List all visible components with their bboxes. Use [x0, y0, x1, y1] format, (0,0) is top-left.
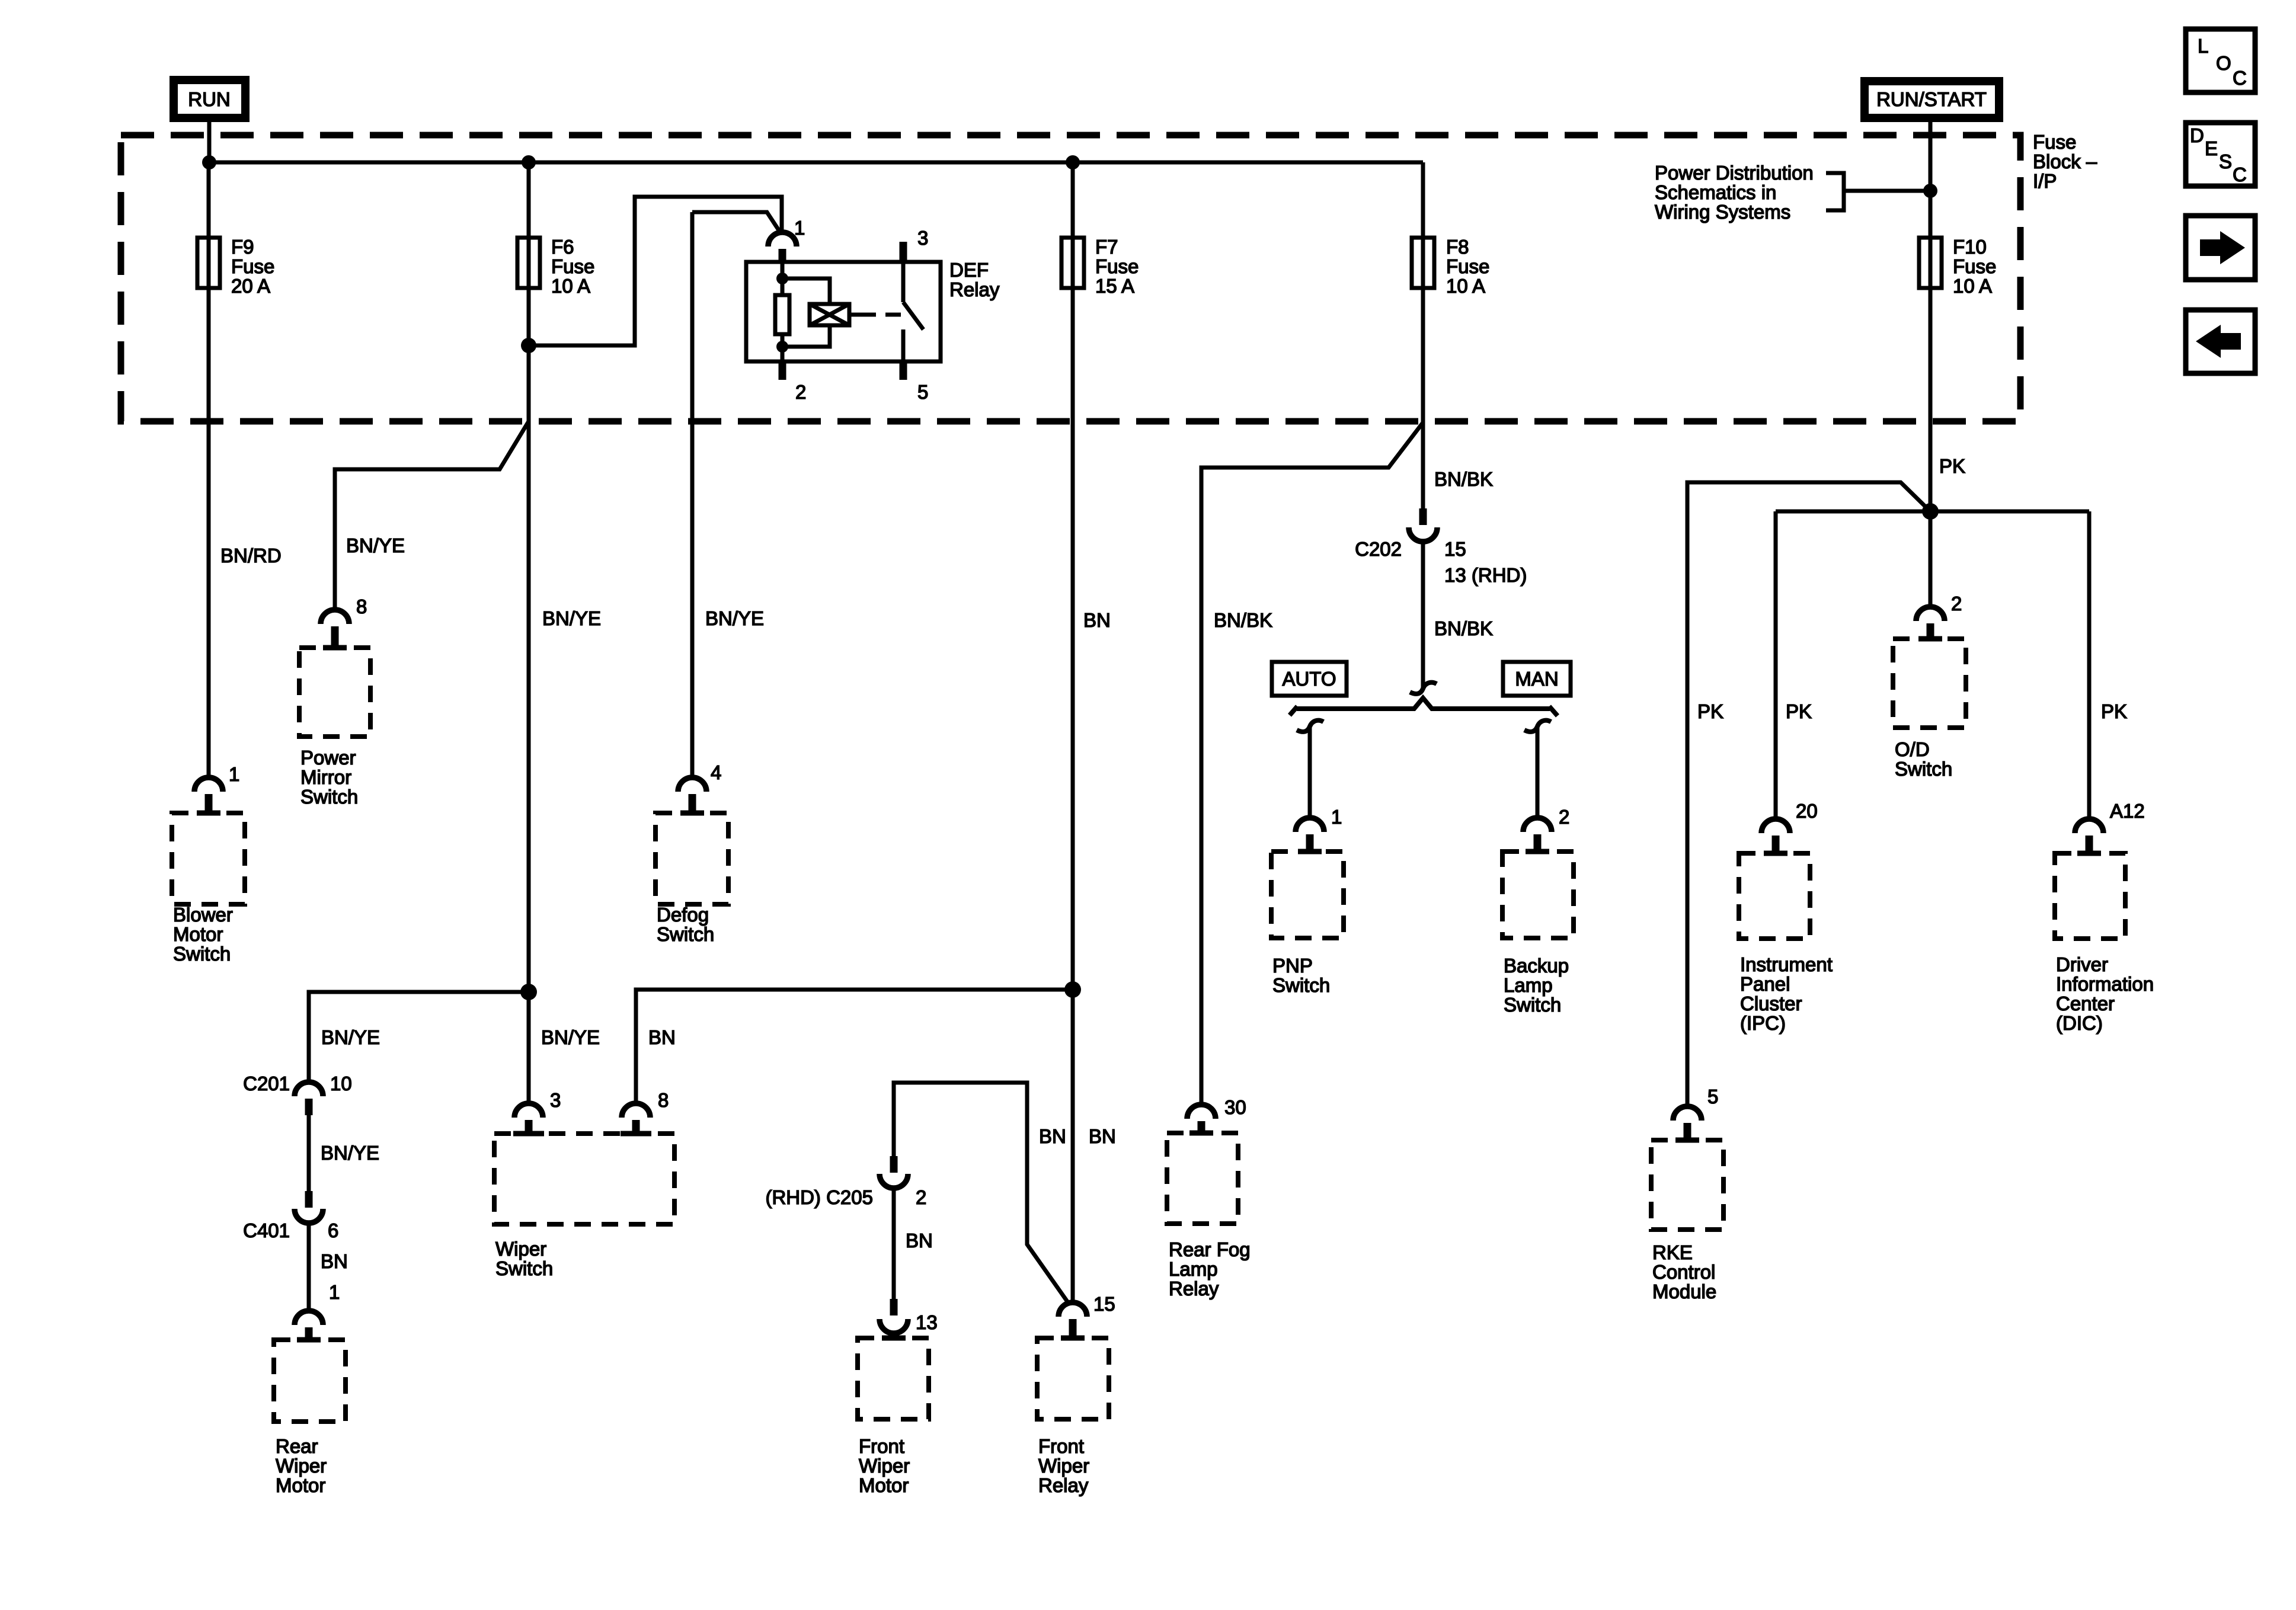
svg-text:Cluster: Cluster: [1740, 993, 1802, 1014]
svg-text:Motor: Motor: [173, 923, 223, 945]
svg-text:F8: F8: [1446, 236, 1469, 258]
svg-text:C: C: [2233, 164, 2247, 185]
svg-text:(DIC): (DIC): [2056, 1012, 2103, 1034]
svg-text:3: 3: [917, 227, 928, 249]
front wiper relay: [1037, 1338, 1109, 1496]
pin 8 connector of power mirror switch: [321, 596, 367, 645]
connector C201 pin 10: [243, 1073, 352, 1115]
svg-text:RUN/START: RUN/START: [1876, 88, 1987, 110]
pin 20 connector of instrument panel cluster: [1761, 800, 1818, 853]
connector C205 pin 2: [765, 1156, 926, 1208]
svg-text:Control: Control: [1652, 1261, 1715, 1283]
node RUN/START (ignition feed box): [1865, 81, 1999, 118]
wire C401 to rear wiper motor: [307, 1222, 311, 1311]
svg-text:Relay: Relay: [949, 279, 1000, 300]
svg-text:Power: Power: [300, 747, 356, 769]
svg-text:Fuse: Fuse: [551, 255, 594, 277]
svg-text:20: 20: [1796, 800, 1818, 822]
fuse block I/P dashed border: [121, 135, 2020, 421]
svg-text:F9: F9: [231, 236, 254, 258]
svg-text:Front: Front: [1038, 1435, 1084, 1457]
PNP switch: [1271, 852, 1344, 996]
svg-text:8: 8: [356, 596, 367, 617]
svg-text:O/D: O/D: [1895, 738, 1930, 760]
svg-text:PK: PK: [1697, 700, 1723, 722]
connector C202 pin 15: [1355, 508, 1527, 586]
svg-text:10 A: 10 A: [1953, 275, 1992, 297]
svg-text:30: 30: [1224, 1096, 1246, 1118]
svg-text:Relay: Relay: [1169, 1278, 1219, 1299]
front wiper motor: [858, 1338, 929, 1496]
wire RKE branch: [1687, 482, 1930, 1106]
svg-text:S: S: [2219, 151, 2232, 172]
svg-text:Mirror: Mirror: [300, 766, 351, 788]
svg-text:C202: C202: [1355, 538, 1402, 560]
icon LOC button: [2186, 29, 2255, 92]
power mirror switch: [299, 648, 370, 808]
svg-text:I/P: I/P: [2033, 170, 2057, 192]
svg-text:13: 13: [916, 1311, 938, 1333]
svg-text:Fuse: Fuse: [231, 255, 274, 277]
junction dot schematics callout: [1923, 184, 1937, 198]
wire wiper switch pin 8 branch: [636, 990, 1073, 1103]
instrument panel cluster: [1739, 853, 1833, 1034]
pin A12 connector of driver information center: [2075, 800, 2145, 853]
rear fog lamp relay: [1167, 1133, 1251, 1299]
wire F6 to DEF relay pin 1: [529, 197, 782, 345]
svg-text:F10: F10: [1953, 236, 1987, 258]
svg-text:BN: BN: [906, 1230, 933, 1251]
wire DIC branch: [2087, 511, 2092, 819]
wire RUN/START drop: [1929, 118, 1933, 607]
svg-text:Wiper: Wiper: [276, 1455, 327, 1477]
svg-text:PK: PK: [1939, 455, 1965, 477]
callout Power Distribution Schematics in Wiring Systems: [1655, 162, 1930, 223]
svg-text:15: 15: [1444, 538, 1466, 560]
svg-text:8: 8: [658, 1089, 669, 1111]
svg-text:5: 5: [1707, 1086, 1718, 1108]
O/D switch: [1893, 639, 1966, 780]
svg-text:2: 2: [916, 1186, 926, 1208]
svg-text:BN/YE: BN/YE: [321, 1026, 380, 1048]
svg-text:(RHD) C205: (RHD) C205: [765, 1186, 873, 1208]
svg-text:Wiper: Wiper: [1038, 1455, 1089, 1477]
svg-text:Switch: Switch: [1272, 974, 1330, 996]
svg-text:Relay: Relay: [1038, 1474, 1089, 1496]
wire F9 branch: [207, 162, 211, 777]
svg-text:A12: A12: [2110, 800, 2145, 822]
svg-text:15: 15: [1093, 1293, 1115, 1315]
svg-text:BN/YE: BN/YE: [542, 607, 601, 629]
wire IPC branch: [1774, 511, 1778, 819]
svg-text:PK: PK: [1786, 700, 1812, 722]
junction dot F7/BN: [1064, 981, 1081, 998]
svg-text:2: 2: [1559, 806, 1569, 828]
junction dot at F7: [1066, 155, 1080, 169]
svg-text:Fuse: Fuse: [1953, 255, 1996, 277]
svg-text:Motor: Motor: [859, 1474, 909, 1496]
wire rear fog lamp relay branch: [1201, 422, 1423, 1105]
splice hook MAN branch: [1524, 721, 1551, 732]
junction dot BN/YE split: [520, 984, 537, 1000]
svg-text:20 A: 20 A: [231, 275, 270, 297]
wire power mirror switch branch: [335, 421, 529, 610]
svg-text:Rear Fog: Rear Fog: [1169, 1238, 1251, 1260]
svg-text:Switch: Switch: [173, 943, 231, 965]
svg-text:PK: PK: [2101, 700, 2127, 722]
svg-text:Block –: Block –: [2033, 151, 2097, 172]
DEF relay U1: [746, 217, 1000, 403]
svg-text:Center: Center: [2056, 993, 2115, 1014]
wire front wiper motor to front wiper relay: [894, 1083, 1068, 1302]
svg-text:Module: Module: [1652, 1281, 1716, 1302]
svg-text:Driver: Driver: [2056, 953, 2108, 975]
svg-text:DEF: DEF: [949, 259, 989, 281]
blower motor switch: [172, 813, 245, 965]
svg-text:Information: Information: [2056, 973, 2154, 995]
svg-text:MAN: MAN: [1515, 668, 1558, 690]
pin 8 connector of wiper switch: [622, 1089, 669, 1134]
svg-text:C401: C401: [243, 1219, 290, 1241]
driver information center: [2055, 853, 2154, 1034]
option bracket: [1290, 698, 1558, 716]
svg-text:10 A: 10 A: [1446, 275, 1485, 297]
rear wiper motor: [274, 1340, 346, 1496]
svg-text:10: 10: [330, 1073, 352, 1094]
connector C401 pin 6: [243, 1191, 338, 1241]
wire F8 branch BN/BK: [1421, 162, 1425, 508]
wire BN/YE to C201: [309, 992, 529, 1082]
svg-text:E: E: [2205, 137, 2218, 159]
pin 1 connector of rear wiper motor: [295, 1281, 340, 1340]
pin 2 connector of O/D switch: [1916, 593, 1962, 639]
wire C202 to option splice: [1421, 541, 1425, 689]
svg-text:Lamp: Lamp: [1504, 974, 1553, 996]
svg-text:13 (RHD): 13 (RHD): [1444, 564, 1527, 586]
wire main ignition bus: [209, 161, 1423, 165]
junction dot PK split: [1922, 503, 1939, 520]
svg-text:F7: F7: [1095, 236, 1118, 258]
svg-text:Power Distribution: Power Distribution: [1655, 162, 1814, 184]
svg-text:Motor: Motor: [276, 1474, 325, 1496]
wire C205 to front wiper motor: [892, 1188, 896, 1299]
svg-text:C201: C201: [243, 1073, 290, 1094]
svg-text:Fuse: Fuse: [2033, 131, 2076, 153]
wire F6 branch: [527, 162, 531, 1103]
splice hook at option bracket: [1410, 683, 1437, 694]
svg-text:BN/RD: BN/RD: [220, 545, 282, 566]
junction dot at F6: [522, 155, 536, 169]
node MAN: [1503, 662, 1571, 696]
svg-text:Backup: Backup: [1504, 955, 1569, 977]
fuse F8 10A: [1412, 236, 1489, 297]
svg-text:BN: BN: [321, 1250, 348, 1272]
node RUN (ignition feed box): [174, 80, 245, 118]
svg-text:(IPC): (IPC): [1740, 1012, 1786, 1034]
defog switch: [655, 813, 728, 945]
svg-text:Schematics in: Schematics in: [1655, 181, 1776, 203]
wire defog switch feed to DEF relay pin 1: [692, 212, 781, 233]
wire RUN drop to bus: [207, 118, 212, 162]
svg-text:6: 6: [328, 1219, 338, 1241]
svg-text:Rear: Rear: [276, 1435, 318, 1457]
svg-text:Fuse: Fuse: [1095, 255, 1139, 277]
svg-text:4: 4: [711, 761, 721, 783]
svg-text:1: 1: [794, 217, 805, 239]
svg-text:BN/BK: BN/BK: [1434, 468, 1493, 490]
wire F7 branch: [1071, 162, 1075, 1302]
pin 1 connector of PNP switch: [1296, 806, 1342, 852]
svg-text:Switch: Switch: [1895, 758, 1952, 780]
RKE control module: [1651, 1140, 1723, 1302]
wire defog switch drop: [690, 212, 695, 777]
fuse F10 10A: [1919, 236, 1996, 297]
svg-text:Panel: Panel: [1740, 973, 1790, 995]
fuse F9 20A: [197, 236, 274, 297]
svg-text:L: L: [2198, 35, 2208, 57]
svg-text:BN: BN: [1083, 609, 1111, 631]
svg-text:Defog: Defog: [657, 904, 709, 926]
wire MAN branch to backup lamp switch: [1536, 726, 1540, 818]
pin 2 connector of backup lamp switch: [1523, 806, 1569, 852]
svg-text:Switch: Switch: [1504, 994, 1561, 1016]
pin 5 connector of RKE control module: [1673, 1086, 1718, 1140]
svg-text:Switch: Switch: [495, 1257, 553, 1279]
junction dot F6 to DEF relay: [521, 338, 536, 353]
svg-text:D: D: [2190, 124, 2204, 146]
pin 4 connector of defog switch: [678, 761, 721, 813]
svg-text:F6: F6: [551, 236, 574, 258]
svg-text:Switch: Switch: [657, 923, 714, 945]
svg-text:C: C: [2233, 67, 2247, 89]
junction dot at RUN feed: [202, 155, 216, 169]
pin 3 connector of wiper switch: [514, 1089, 561, 1134]
svg-text:BN/YE: BN/YE: [346, 534, 405, 556]
svg-text:Wiper: Wiper: [859, 1455, 910, 1477]
svg-text:BN/YE: BN/YE: [541, 1026, 600, 1048]
svg-text:RUN: RUN: [188, 88, 231, 110]
icon back arrow button: [2186, 310, 2255, 373]
fuse F6 10A: [517, 236, 594, 297]
svg-text:Instrument: Instrument: [1740, 953, 1833, 975]
svg-text:Switch: Switch: [300, 786, 358, 808]
svg-text:AUTO: AUTO: [1282, 668, 1336, 690]
pin 30 connector of rear fog lamp relay: [1187, 1096, 1246, 1133]
svg-text:Wiper: Wiper: [495, 1238, 546, 1260]
pin 15 connector of front wiper relay: [1059, 1293, 1115, 1338]
svg-text:Blower: Blower: [173, 904, 233, 926]
svg-text:10 A: 10 A: [551, 275, 590, 297]
backup lamp switch: [1502, 852, 1574, 1016]
svg-text:RKE: RKE: [1652, 1241, 1693, 1263]
icon DESC button: [2186, 123, 2255, 186]
svg-text:BN/YE: BN/YE: [321, 1142, 379, 1164]
svg-text:15 A: 15 A: [1095, 275, 1134, 297]
svg-text:BN/BK: BN/BK: [1214, 609, 1272, 631]
svg-text:O: O: [2216, 52, 2231, 74]
svg-text:1: 1: [229, 763, 239, 785]
wire PK bus: [1776, 510, 2089, 514]
svg-text:3: 3: [550, 1089, 561, 1111]
svg-text:1: 1: [1331, 806, 1342, 828]
splice hook AUTO branch: [1297, 721, 1323, 732]
svg-text:BN: BN: [1039, 1125, 1066, 1147]
pin 13 connector of front wiper motor: [880, 1299, 938, 1333]
svg-text:Wiring Systems: Wiring Systems: [1655, 201, 1790, 223]
svg-text:BN: BN: [648, 1026, 676, 1048]
fuse F7 15A: [1061, 236, 1139, 297]
label Fuse Block - I/P: [2033, 131, 2097, 192]
node AUTO: [1272, 662, 1347, 696]
wire AUTO branch to PNP switch: [1308, 726, 1312, 818]
svg-text:2: 2: [795, 381, 806, 403]
svg-text:1: 1: [329, 1281, 340, 1303]
svg-text:Lamp: Lamp: [1169, 1258, 1218, 1280]
wiper switch: [494, 1134, 674, 1279]
svg-text:Front: Front: [859, 1435, 904, 1457]
wire C201 to C401: [307, 1115, 311, 1191]
svg-text:BN/BK: BN/BK: [1434, 617, 1493, 639]
svg-text:BN/YE: BN/YE: [705, 607, 764, 629]
svg-text:BN: BN: [1089, 1125, 1116, 1147]
svg-text:5: 5: [917, 381, 928, 403]
pin 1 connector of blower motor switch: [194, 763, 239, 813]
svg-text:Fuse: Fuse: [1446, 255, 1489, 277]
svg-text:2: 2: [1951, 593, 1962, 614]
svg-text:PNP: PNP: [1272, 955, 1313, 977]
icon forward arrow button: [2186, 216, 2255, 280]
